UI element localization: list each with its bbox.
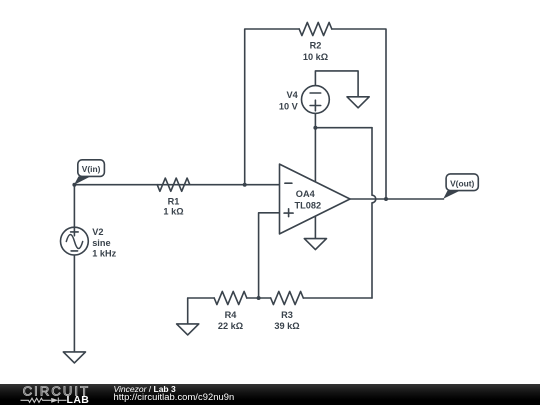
svg-text:V(in): V(in) [82,164,101,174]
node output junction dot [384,197,388,201]
wire R3 right to vertical [303,297,372,299]
wire R2 right to output node [332,29,386,199]
svg-text:R3: R3 [281,310,293,320]
resistor R1 [157,178,190,191]
wire bottom network horizontal [188,297,215,299]
svg-text:10 V: 10 V [279,102,299,112]
footer caption [114,385,235,402]
wire main input horizontal [74,184,279,186]
circuitlab logo [0,384,110,405]
ground right of V4 [347,97,369,108]
node V(in) junction dot [72,183,76,187]
V4 plus sign [310,105,321,107]
voltage source V4 circle [302,86,330,114]
V2 plus sign [71,231,79,233]
wire op-amp output to V(out) [350,198,444,200]
wire V2 bottom to ground [73,255,75,352]
wire V4 bottom to node [314,113,316,127]
svg-text:V2: V2 [92,227,103,237]
svg-text:10 kΩ: 10 kΩ [303,52,328,62]
op-amp non-inverting input marker [284,212,293,214]
V4 minus sign [310,92,321,94]
node V4 bottom junction dot [313,126,317,130]
net flag V(in) [74,160,104,185]
svg-text:TL082: TL082 [295,200,322,210]
net flag V(out) [443,174,478,199]
wire ground stub bottom-left of R4 [187,298,189,324]
node inverting input junction dot [243,183,247,187]
wire V4 node to right vertical [315,127,372,129]
footer bar [0,384,540,405]
wire V(in) node down to V2 top [73,185,75,228]
ground below V2 [63,352,85,363]
op-amp inverting input marker [285,182,292,184]
svg-text:R4: R4 [225,310,238,320]
wire vertical with hop from V4 node down to R3 [372,128,376,298]
node R4/R3 junction dot [257,296,261,300]
svg-text:22 kΩ: 22 kΩ [218,321,243,331]
wire op-amp V+ supply pin [314,128,316,182]
wire V4 top to ground [315,71,358,97]
svg-text:1 kHz: 1 kHz [92,249,116,259]
ground below op-amp [304,239,326,250]
op-amp OA4 triangle [280,164,351,234]
resistor R3 [271,291,304,304]
svg-text:V(out): V(out) [450,179,474,189]
wire non-inverting input branch [259,213,280,298]
wire R4 to R3 [247,297,271,299]
wire op-amp V- supply pin [314,216,316,239]
resistor R2 [299,22,332,35]
svg-text:39 kΩ: 39 kΩ [274,321,299,331]
wire R2 feedback branch left vertical [245,29,300,185]
ground below R4 left [177,324,199,335]
V2 minus sign [71,250,78,252]
svg-text:LAB: LAB [67,394,90,405]
svg-text:1 kΩ: 1 kΩ [163,207,183,217]
svg-text:OA4: OA4 [296,189,316,199]
svg-text:R1: R1 [168,196,180,206]
V2 sine wave [66,234,82,248]
svg-text:sine: sine [92,238,110,248]
resistor R4 [214,291,247,304]
voltage source V2 circle [61,227,89,255]
svg-text:R2: R2 [310,41,322,51]
svg-text:V4: V4 [287,90,299,100]
